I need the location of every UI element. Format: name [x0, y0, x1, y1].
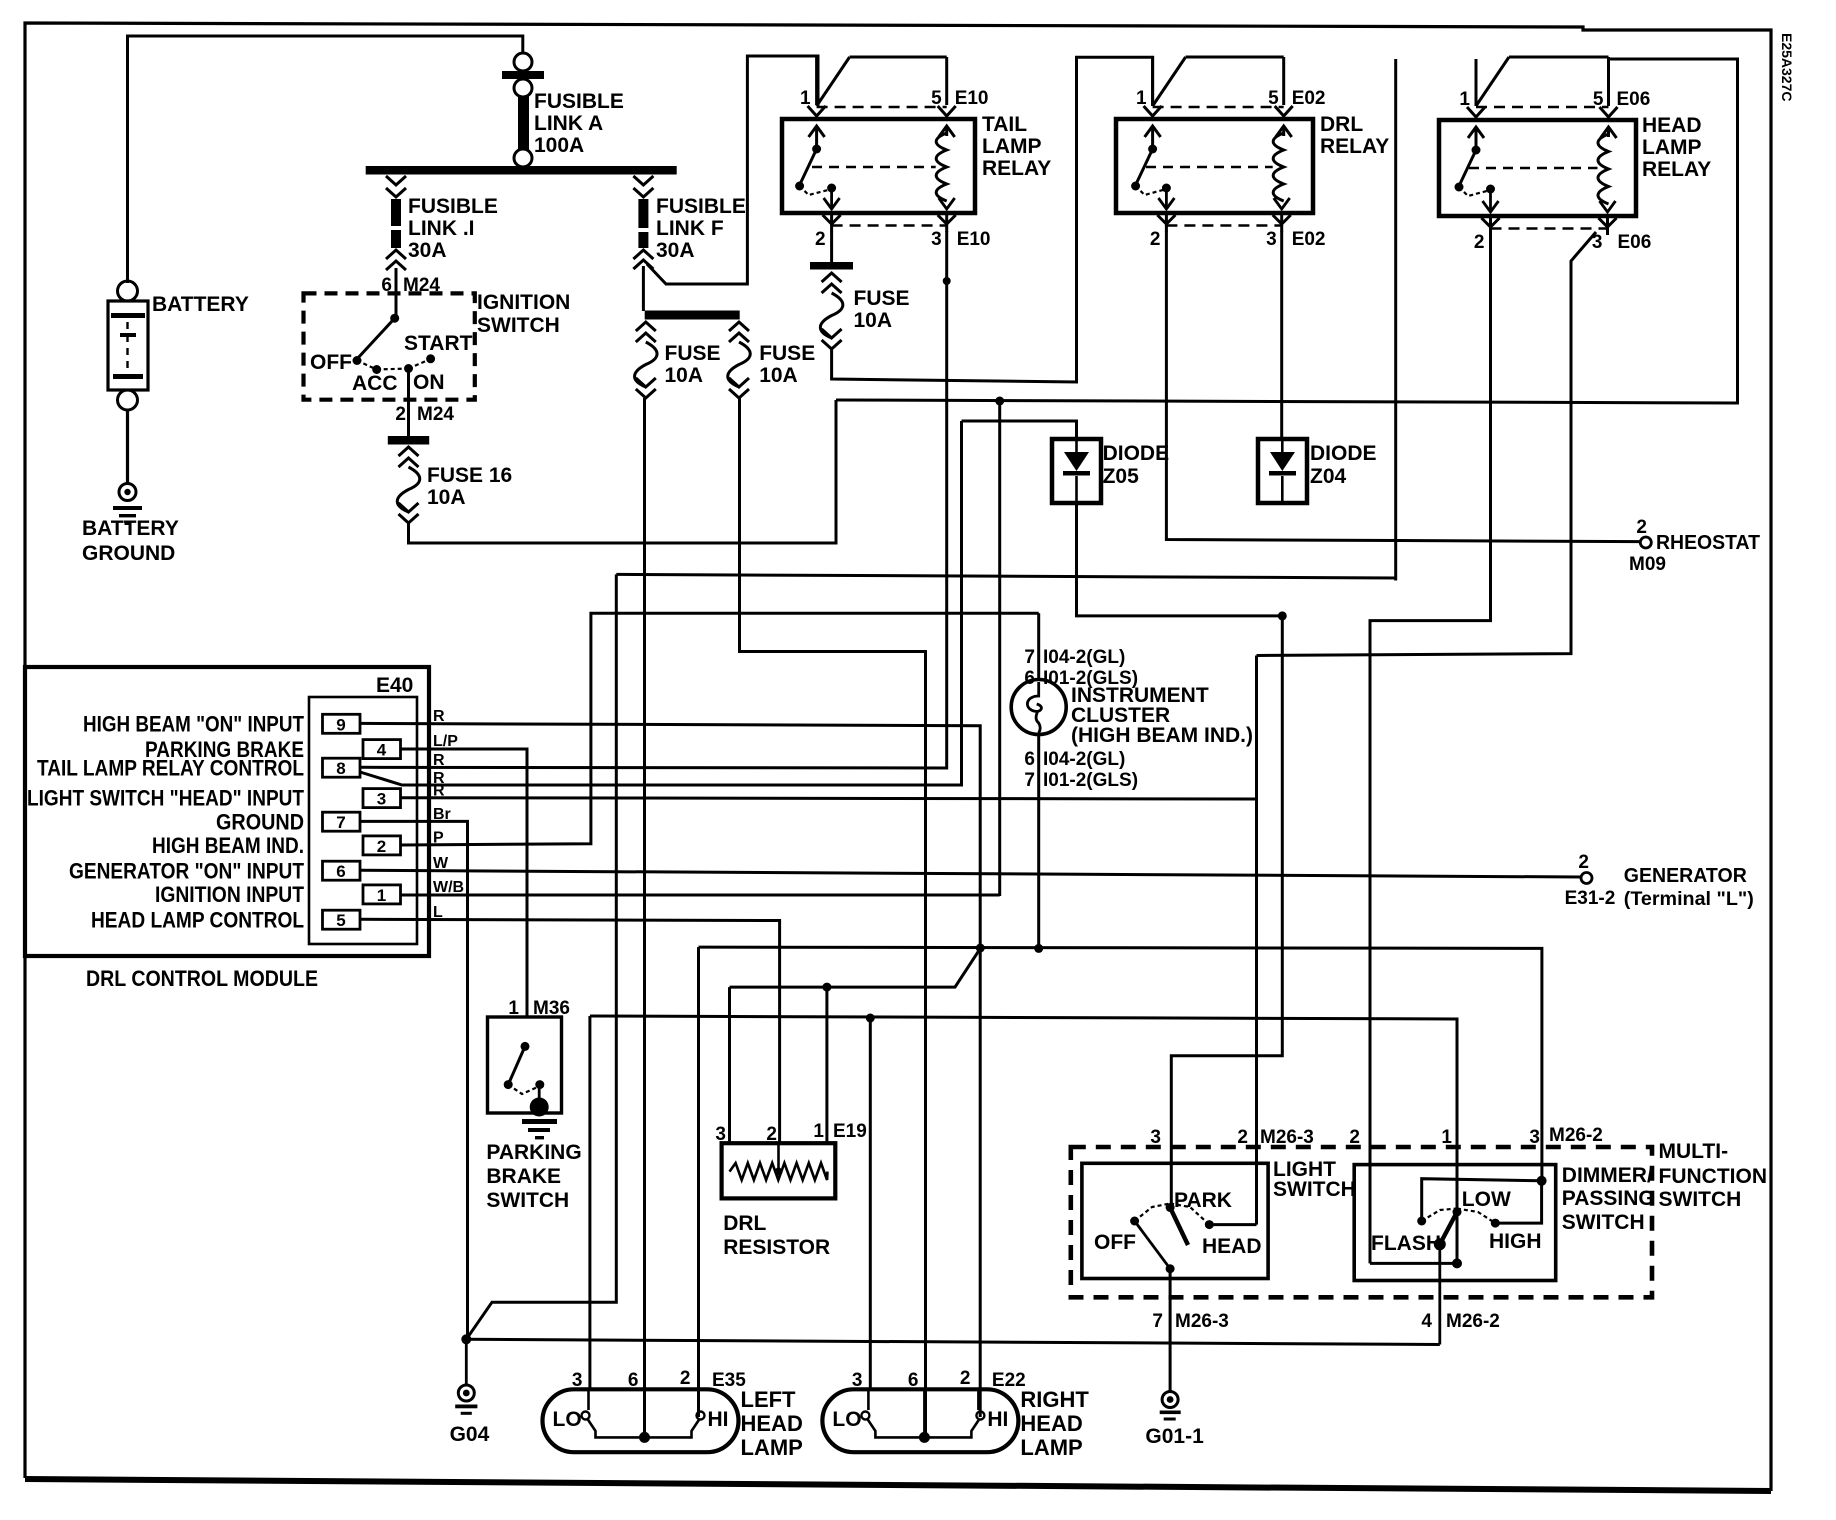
wire E40 pin 3 light switch head input — [401, 798, 1257, 799]
tail lamp relay E10 coil — [936, 133, 947, 201]
svg-text:5: 5 — [1268, 88, 1279, 109]
DRL relay E02 pin 5 arrow — [1282, 126, 1285, 136]
DRL relay E02 top dashed line — [1153, 106, 1284, 109]
svg-text:7: 7 — [1024, 647, 1035, 668]
wire E06 pin 2 down — [1370, 219, 1491, 1263]
svg-text:GROUND: GROUND — [216, 809, 304, 834]
svg-text:M26-2: M26-2 — [1549, 1125, 1603, 1146]
E40 pin 8 box — [323, 758, 361, 777]
left head lamp E35 shell — [543, 1389, 739, 1452]
svg-text:7: 7 — [336, 813, 345, 832]
svg-text:OFF: OFF — [310, 351, 352, 374]
svg-text:M24: M24 — [417, 404, 454, 425]
head lamp relay E06 pin 5 top wire — [1509, 56, 1609, 59]
wire battery to ground — [126, 410, 129, 484]
ignition switch ON contact — [404, 364, 413, 373]
svg-text:3: 3 — [1266, 229, 1277, 250]
DRL relay E02 switch contact b — [1162, 184, 1171, 193]
light switch OFF line — [1135, 1221, 1171, 1269]
head lamp relay E06 switch lever — [1459, 150, 1476, 186]
right head lamp E22 pin 3 entry — [867, 1389, 870, 1410]
DRL relay E02 pin 2 arrow — [1165, 188, 1168, 208]
svg-text:1: 1 — [1459, 89, 1470, 110]
svg-text:DRL: DRL — [723, 1212, 766, 1235]
wire battery to fusible link A — [128, 36, 523, 283]
svg-text:SWITCH: SWITCH — [1562, 1211, 1645, 1234]
wire HEAD contact to riser — [1209, 1223, 1256, 1226]
svg-text:DIODE: DIODE — [1103, 442, 1170, 465]
svg-text:LOW: LOW — [1462, 1188, 1511, 1211]
DRL relay E02 pin 1 arrow — [1151, 126, 1154, 150]
svg-text:1: 1 — [1441, 1127, 1452, 1148]
fuse A chevrons — [636, 322, 656, 331]
svg-text:5: 5 — [336, 911, 345, 930]
tail lamp relay E10 pin 1 riser — [815, 57, 818, 106]
parking brake arc — [508, 1085, 540, 1094]
svg-text:3: 3 — [1529, 1127, 1540, 1148]
tail lamp relay E10 switch lever — [800, 149, 817, 185]
tail lamp relay E10 bottom dashed line — [832, 224, 947, 227]
svg-text:9: 9 — [336, 715, 345, 734]
svg-text:10A: 10A — [427, 486, 466, 509]
svg-text:RELAY: RELAY — [1642, 158, 1711, 181]
diode Z04 — [1258, 439, 1307, 503]
wire fuse C to DRL relay pin 1 — [832, 57, 1153, 382]
diode Z05 — [1052, 439, 1101, 503]
svg-text:2: 2 — [680, 1368, 691, 1389]
svg-text:100A: 100A — [534, 134, 584, 157]
svg-text:BRAKE: BRAKE — [486, 1165, 561, 1188]
svg-text:E25A327C: E25A327C — [1779, 33, 1795, 102]
svg-text:ON: ON — [413, 371, 445, 394]
tail lamp relay E10 pin 2 stub — [830, 213, 833, 232]
DRL relay E02 box — [1116, 119, 1313, 213]
wire E06 pin 3 elbow — [1257, 232, 1597, 656]
tail lamp relay E10 switch contact a — [795, 182, 804, 191]
svg-text:2: 2 — [377, 837, 386, 856]
tail lamp relay E10 box — [782, 119, 975, 213]
svg-text:LO: LO — [832, 1408, 861, 1431]
wire E40 pin 5 head lamp control — [360, 919, 780, 1143]
battery plate top — [111, 313, 145, 318]
parking brake contact b — [535, 1080, 544, 1089]
parking brake ground blob — [530, 1098, 549, 1117]
ignition switch OFF contact — [353, 356, 362, 365]
G04 stem — [465, 1339, 468, 1385]
diode Z05 symbol — [1064, 452, 1089, 471]
svg-text:I01-2(GLS): I01-2(GLS) — [1043, 770, 1138, 791]
cluster filament — [1027, 682, 1041, 733]
svg-text:PARKING: PARKING — [486, 1141, 581, 1164]
fusible link I chevron bottom — [386, 250, 406, 259]
svg-text:W: W — [433, 855, 449, 872]
svg-text:Z04: Z04 — [1310, 465, 1347, 488]
light switch PARK contact — [1166, 1203, 1175, 1212]
svg-text:GENERATOR "ON" INPUT: GENERATOR "ON" INPUT — [69, 858, 304, 883]
head lamp relay E06 mid dashed line — [1469, 167, 1598, 170]
right head lamp E22 pin 6 entry — [923, 1389, 926, 1437]
parking brake lever — [508, 1046, 525, 1084]
svg-text:FUSIBLE: FUSIBLE — [656, 195, 746, 218]
svg-text:7: 7 — [1152, 1311, 1163, 1332]
head lamp relay E06 pin 5 arrow — [1607, 127, 1610, 137]
fusible link A top circle — [514, 53, 532, 71]
svg-text:ACC: ACC — [352, 372, 398, 395]
svg-text:E10: E10 — [955, 88, 989, 109]
DRL relay E02 mid dashed line — [1146, 166, 1273, 169]
svg-text:RIGHT: RIGHT — [1020, 1387, 1089, 1412]
svg-text:RESISTOR: RESISTOR — [723, 1236, 830, 1259]
fuse C chevrons bottom — [822, 329, 842, 338]
svg-text:E40: E40 — [376, 674, 413, 697]
svg-text:PASSING: PASSING — [1562, 1187, 1655, 1210]
left head lamp E35 LO terminal — [582, 1412, 590, 1420]
DRL relay E02 pin 1 riser — [1151, 57, 1154, 106]
tail lamp relay E10 switch contact b — [827, 184, 836, 193]
fuse 16 chevrons — [399, 447, 419, 456]
dimmer inner wiring — [1422, 1179, 1542, 1221]
tail lamp relay E10 chevron pin 5 — [938, 106, 956, 116]
head lamp relay E06 coil — [1598, 134, 1609, 204]
head lamp relay E06 pin 3 arrow — [1600, 201, 1616, 212]
left head lamp E35 pin 2 entry — [697, 1389, 700, 1410]
dimmer lever — [1441, 1212, 1458, 1243]
fusible link A lower circle — [514, 79, 532, 97]
tail lamp relay E10 top dashed line — [817, 106, 947, 109]
svg-text:M26-3: M26-3 — [1260, 1127, 1314, 1148]
light switch HEAD contact — [1205, 1220, 1214, 1229]
ignition switch M24 — [304, 293, 475, 399]
svg-text:TAIL LAMP RELAY CONTROL: TAIL LAMP RELAY CONTROL — [37, 755, 304, 780]
tail lamp relay E10 mid dashed line — [812, 166, 936, 169]
head lamp relay E06 chevron pin 5 — [1600, 107, 1618, 117]
svg-text:FUSIBLE: FUSIBLE — [408, 195, 498, 218]
svg-text:E19: E19 — [833, 1121, 867, 1142]
fusible link F chevron bottom — [633, 250, 653, 259]
svg-text:I04-2(GL): I04-2(GL) — [1043, 749, 1125, 770]
svg-text:LEFT: LEFT — [741, 1387, 797, 1412]
rheostat M09 terminal — [1640, 537, 1651, 548]
svg-text:RELAY: RELAY — [1320, 135, 1389, 158]
DRL resistor pin 2 tap — [777, 1143, 780, 1168]
left head lamp E35 HI terminal — [697, 1412, 705, 1420]
svg-text:1: 1 — [377, 886, 386, 905]
border bottom edge — [25, 1479, 1771, 1491]
svg-text:6: 6 — [1024, 749, 1035, 770]
DRL relay E02 switch common — [1148, 145, 1157, 154]
fuse 16 cap bar — [388, 436, 429, 445]
wire E19 pin 1 riser — [825, 987, 828, 1143]
wire to ground G04 via elbow — [466, 574, 616, 1339]
battery bottom terminal — [118, 390, 138, 410]
wire E35 HI riser — [697, 947, 700, 1417]
svg-text:W/B: W/B — [433, 879, 464, 896]
head lamp relay E06 pin 2 stub — [1489, 216, 1492, 235]
E40 pin 3 box — [363, 789, 401, 808]
fuse A chevrons bottom — [636, 378, 656, 387]
fusible link A bottom circle — [514, 149, 532, 167]
svg-text:2: 2 — [960, 1368, 971, 1389]
svg-text:DRL: DRL — [1320, 113, 1363, 136]
DRL relay E02 chevron pin 3 — [1273, 215, 1291, 224]
svg-text:2: 2 — [1349, 1127, 1360, 1148]
battery ground terminal — [119, 484, 136, 501]
svg-text:START: START — [404, 332, 473, 355]
svg-text:5: 5 — [931, 88, 942, 109]
svg-text:M09: M09 — [1629, 554, 1666, 575]
wire cluster bottom — [1037, 735, 1040, 949]
wire E02 pin 3 to diode Z04 — [1280, 231, 1283, 439]
tail lamp relay E10 pin 5 top wire — [850, 56, 947, 59]
ignition switch lever — [357, 318, 395, 359]
fusible link A element — [518, 96, 529, 150]
wire E35 LO drop — [588, 1016, 591, 1389]
svg-text:FUSE: FUSE — [665, 342, 721, 365]
svg-text:HIGH BEAM IND.: HIGH BEAM IND. — [152, 833, 304, 858]
wire E40 pin 8 tail lamp relay control — [360, 231, 947, 768]
node ignition feed junction — [995, 397, 1004, 406]
DRL relay E02 bottom dashed line — [1166, 224, 1281, 227]
svg-text:G04: G04 — [450, 1423, 490, 1446]
svg-text:2: 2 — [1578, 852, 1589, 873]
svg-text:2: 2 — [1237, 1127, 1248, 1148]
E40 pin 5 box — [323, 910, 361, 929]
battery B+ — [108, 301, 148, 390]
main bus bar — [366, 166, 677, 175]
head lamp relay E06 crossover diagonal — [1476, 57, 1509, 106]
fusible link F element — [638, 199, 648, 228]
parking brake ground stem — [538, 1085, 541, 1108]
svg-text:E02: E02 — [1292, 88, 1326, 109]
battery plate mid — [120, 333, 136, 337]
tail lamp relay E10 pin 3 arrow — [939, 198, 955, 209]
fusible link I element — [391, 199, 401, 226]
svg-text:30A: 30A — [408, 239, 447, 262]
svg-text:FUSE: FUSE — [854, 287, 910, 310]
wire dimmer pin 2 link — [1370, 1262, 1457, 1265]
svg-text:SWITCH: SWITCH — [1659, 1188, 1742, 1211]
svg-text:3: 3 — [377, 790, 386, 809]
svg-text:M26-3: M26-3 — [1175, 1311, 1229, 1332]
tail lamp relay E10 chevron pin 1 — [808, 106, 826, 116]
DRL relay E02 chevron pin 2 — [1157, 215, 1175, 224]
wire dimmer common to pin 4 — [1438, 1244, 1441, 1344]
svg-text:LINK .I: LINK .I — [408, 217, 475, 240]
wire fuse 16 output — [409, 400, 837, 543]
tail lamp relay E10 switch arc — [800, 186, 832, 195]
head lamp relay E06 chevron pin 3 — [1599, 218, 1617, 227]
E40 pin 9 box — [323, 714, 361, 733]
E40 pin 6 box — [323, 861, 361, 880]
right head lamp E22 HI terminal — [976, 1412, 984, 1420]
DRL relay E02 coil — [1273, 133, 1284, 201]
wire diode Z05 to junction — [1077, 503, 1283, 616]
svg-text:DRL CONTROL MODULE: DRL CONTROL MODULE — [86, 966, 318, 991]
wire E06 pin 5 feed — [836, 59, 1738, 403]
dimmer common contact — [1434, 1238, 1446, 1250]
svg-text:OFF: OFF — [1094, 1231, 1136, 1254]
parking brake contact a — [504, 1080, 513, 1089]
wire E02 pin 2 to rheostat — [1166, 231, 1640, 542]
parking brake ground bars — [522, 1119, 557, 1124]
svg-text:RELAY: RELAY — [982, 157, 1051, 180]
svg-text:(HIGH BEAM IND.): (HIGH BEAM IND.) — [1071, 724, 1253, 747]
DRL relay E02 pin 2 stub — [1165, 213, 1168, 232]
head lamp relay E06 switch contact b — [1486, 185, 1495, 194]
DRL relay E02 pin 3 stub — [1280, 213, 1283, 232]
svg-text:GROUND: GROUND — [82, 542, 175, 565]
svg-text:FUSIBLE: FUSIBLE — [534, 90, 624, 113]
svg-text:BATTERY: BATTERY — [152, 293, 249, 316]
node high beam junction at cluster — [1034, 944, 1043, 953]
dimmer HIGH contact — [1491, 1219, 1500, 1228]
battery center dashes — [126, 322, 128, 378]
svg-text:PARK: PARK — [1174, 1189, 1232, 1212]
svg-text:IGNITION: IGNITION — [477, 291, 570, 314]
light switch pin 7 contact — [1166, 1264, 1175, 1273]
head lamp relay E06 box — [1439, 120, 1636, 216]
svg-text:10A: 10A — [854, 309, 893, 332]
svg-text:HEAD: HEAD — [741, 1411, 803, 1436]
svg-text:LINK F: LINK F — [656, 217, 724, 240]
DRL relay E02 switch arc — [1136, 186, 1167, 195]
svg-text:E31-2: E31-2 — [1565, 888, 1616, 909]
tail lamp relay E10 pin 1 arrow — [815, 126, 818, 150]
battery plate bottom — [113, 374, 143, 379]
head lamp relay E06 top dashed line — [1476, 106, 1609, 109]
ignition switch ACC contact — [372, 365, 381, 374]
head lamp relay E06 chevron pin 2 — [1482, 218, 1500, 227]
wire E40 pin 2 high beam ind — [401, 613, 1039, 845]
right head lamp E22 pin 2 entry — [977, 1389, 980, 1410]
E40 pin 2 box — [363, 836, 401, 855]
svg-text:I04-2(GL): I04-2(GL) — [1043, 647, 1125, 668]
ground bus wire — [466, 1339, 1440, 1344]
E40 pin 4 box — [363, 740, 401, 759]
right head lamp E22 filament — [867, 1419, 979, 1437]
svg-text:2: 2 — [1150, 229, 1161, 250]
head lamp relay E06 pin 1 arrow — [1475, 127, 1478, 151]
DRL relay E02 chevron pin 5 — [1275, 106, 1293, 116]
svg-text:E06: E06 — [1617, 89, 1651, 110]
head lamp relay E06 bottom dashed line — [1491, 227, 1608, 230]
wire E22 LO drop — [869, 1018, 872, 1389]
battery top terminal — [118, 281, 138, 301]
left head lamp E35 filament — [588, 1419, 700, 1437]
tail lamp relay E10 crossover diagonal — [817, 57, 850, 106]
fuse 16 chevrons bottom — [399, 503, 419, 512]
DRL control module box — [25, 667, 429, 956]
wire diode junction to light switch pin 3 — [1171, 616, 1282, 1208]
node dimmer pin 1 junction — [1452, 1258, 1462, 1268]
node resistor tie at pin 1 — [822, 983, 831, 992]
tail lamp relay E10 chevron pin 3 — [938, 215, 956, 224]
svg-text:DIMMER/: DIMMER/ — [1562, 1164, 1653, 1187]
diode Z04 symbol — [1270, 452, 1295, 471]
ignition switch pivot — [390, 314, 399, 323]
fuse C chevrons — [822, 273, 842, 282]
svg-text:SWITCH: SWITCH — [477, 314, 560, 337]
node low beam junction at E22 — [866, 1014, 875, 1023]
tail lamp relay E10 pin 5 arrow — [945, 126, 948, 136]
svg-text:(Terminal "L"): (Terminal "L") — [1624, 889, 1754, 910]
wire E06 pin 1 feed riser — [1394, 59, 1397, 581]
svg-text:3: 3 — [931, 229, 942, 250]
DRL relay E02 switch contact a — [1131, 182, 1140, 191]
svg-text:10A: 10A — [759, 364, 798, 387]
wire light switch pin 7 to G01-1 — [1169, 1269, 1172, 1391]
parking brake switch contact top — [521, 1042, 530, 1051]
svg-text:DIODE: DIODE — [1310, 442, 1377, 465]
wire E40 pin 9 high beam on input — [360, 723, 980, 948]
svg-text:G01-1: G01-1 — [1145, 1425, 1204, 1448]
svg-text:FLASH: FLASH — [1371, 1232, 1441, 1255]
node diode junction — [1278, 611, 1287, 620]
wire E40 pin 8 diode branch — [360, 421, 962, 785]
svg-text:HEAD: HEAD — [1642, 114, 1702, 137]
svg-text:1: 1 — [800, 88, 811, 109]
svg-text:BATTERY: BATTERY — [82, 517, 179, 540]
DRL resistor tie bar — [730, 948, 981, 987]
fuse A element — [635, 342, 658, 387]
svg-text:SWITCH: SWITCH — [1273, 1178, 1356, 1201]
svg-text:LIGHT SWITCH "HEAD" INPUT: LIGHT SWITCH "HEAD" INPUT — [27, 786, 304, 811]
light switch OFF contact — [1130, 1217, 1139, 1226]
fuse C element — [820, 293, 843, 338]
instrument cluster bulb — [1011, 680, 1066, 735]
svg-text:SWITCH: SWITCH — [486, 1189, 569, 1212]
svg-text:2: 2 — [1636, 517, 1647, 538]
wire fuse B to right head lamp pin 6 — [740, 398, 926, 1437]
svg-text:7: 7 — [1024, 770, 1035, 791]
svg-text:HEAD: HEAD — [1020, 1411, 1082, 1436]
wire fusible link F to fuse bar — [642, 266, 645, 311]
svg-text:LAMP: LAMP — [1020, 1435, 1082, 1460]
wire fusible link F to tail lamp relay — [647, 56, 818, 284]
svg-text:LAMP: LAMP — [982, 135, 1042, 158]
wire E22 HI drop — [979, 948, 982, 1417]
fusible link A cap bar — [502, 71, 544, 79]
parking brake switch box — [488, 1017, 562, 1113]
svg-text:IGNITION INPUT: IGNITION INPUT — [155, 882, 304, 907]
wire E40 pin 1 ignition input — [401, 894, 1000, 897]
diode Z05 feed wire — [962, 421, 1077, 439]
tail lamp relay E10 chevron pin 2 — [823, 215, 841, 224]
svg-text:6: 6 — [1024, 668, 1035, 689]
fuse B element — [728, 342, 751, 387]
node G04 junction — [461, 1334, 471, 1344]
svg-text:6: 6 — [336, 862, 345, 881]
head lamp relay E06 chevron pin 1 — [1467, 107, 1485, 117]
right head lamp E22 LO terminal — [861, 1412, 869, 1420]
E40 connector box — [309, 697, 417, 944]
wire E40 pin 4 parking brake — [401, 749, 527, 1017]
svg-text:LAMP: LAMP — [1642, 136, 1702, 159]
wire fusible link I to ignition switch — [395, 268, 398, 318]
G01-1 terminal — [1162, 1392, 1178, 1408]
svg-text:LO: LO — [553, 1408, 582, 1431]
svg-text:2: 2 — [815, 229, 826, 250]
tail lamp relay E10 pin 3 stub — [945, 213, 948, 232]
svg-text:FUSE 16: FUSE 16 — [427, 464, 512, 487]
right head lamp E22 shell — [822, 1389, 1018, 1452]
svg-text:1: 1 — [813, 1121, 824, 1142]
wire ignition feed to E40 pin 1 — [998, 401, 1001, 896]
DRL resistor element — [730, 1163, 828, 1180]
svg-text:E10: E10 — [957, 229, 991, 250]
svg-text:MULTI-: MULTI- — [1659, 1140, 1729, 1163]
svg-text:L/P: L/P — [433, 733, 458, 750]
